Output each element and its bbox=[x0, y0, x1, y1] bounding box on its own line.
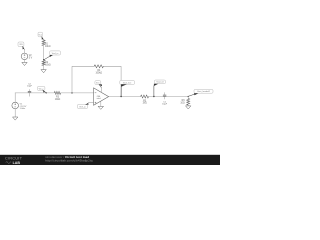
svg-text:10kΩ: 10kΩ bbox=[55, 99, 61, 101]
wire feedback right bbox=[103, 65, 121, 67]
svg-text:Vout_loaded2: Vout_loaded2 bbox=[197, 90, 211, 93]
svg-text:5 V: 5 V bbox=[29, 57, 33, 59]
wire bbox=[14, 93, 16, 102]
wire bbox=[24, 60, 26, 63]
wire feedback down bbox=[120, 66, 122, 96]
wire ground stub bbox=[100, 101, 102, 106]
svg-text:1 kHz: 1 kHz bbox=[20, 108, 26, 110]
svg-text:10µF: 10µF bbox=[27, 86, 33, 88]
wire power stub bbox=[100, 88, 102, 93]
junction bbox=[46, 92, 47, 93]
svg-text:10kΩ: 10kΩ bbox=[45, 65, 51, 67]
svg-text:Vout_ld: Vout_ld bbox=[156, 81, 164, 84]
capacitor C1 bbox=[164, 92, 166, 95]
resistor R2 bbox=[42, 60, 45, 65]
junction output bbox=[120, 96, 121, 97]
junction bbox=[188, 96, 189, 97]
ground op-amp bbox=[98, 106, 103, 109]
ground bbox=[13, 117, 18, 120]
svg-text:10µF: 10µF bbox=[162, 104, 168, 106]
node VOUT label bbox=[120, 80, 135, 84]
wire feedback top bbox=[72, 65, 94, 67]
wire feedback up bbox=[71, 66, 73, 93]
wire plus stub bbox=[89, 102, 94, 104]
node VLOAD label bbox=[194, 89, 213, 93]
svg-text:1kΩ: 1kΩ bbox=[143, 103, 147, 105]
node VIN label bbox=[37, 86, 45, 90]
footer bar bbox=[0, 155, 220, 165]
wire bbox=[149, 96, 189, 98]
svg-text:100kΩ: 100kΩ bbox=[95, 72, 102, 74]
junction feedback bbox=[71, 92, 72, 93]
svg-text:LAB: LAB bbox=[13, 161, 21, 165]
net flag VCC bbox=[38, 32, 43, 37]
wire left rail bbox=[15, 92, 54, 94]
junction bbox=[153, 96, 154, 97]
capacitor C2 bbox=[29, 89, 31, 91]
voltage source V1 bbox=[12, 102, 19, 109]
wire bbox=[187, 97, 189, 99]
wire output bbox=[109, 96, 141, 98]
node VREF label plus input bbox=[77, 104, 87, 108]
ground bbox=[41, 70, 46, 73]
svg-text:10Ω: 10Ω bbox=[180, 103, 185, 105]
wire bbox=[43, 39, 45, 41]
ground bbox=[22, 62, 27, 65]
net flag VIN bbox=[18, 42, 24, 47]
resistor R4 feedback bbox=[94, 65, 103, 68]
svg-text:Vout_live: Vout_live bbox=[123, 81, 132, 84]
resistor R3 bbox=[54, 91, 60, 94]
wire bbox=[43, 46, 45, 61]
svg-text:ideal: ideal bbox=[97, 98, 101, 100]
svg-text:http://circuitlab.com/c/b43kaf: http://circuitlab.com/c/b43kafjp2tq bbox=[45, 159, 93, 163]
junction bbox=[43, 59, 44, 60]
node VREF label bbox=[50, 51, 61, 55]
op-amp OA1 bbox=[94, 88, 109, 105]
wire bbox=[23, 49, 25, 53]
svg-text:Vref_in: Vref_in bbox=[79, 105, 86, 108]
resistor R1 bbox=[42, 40, 45, 46]
node VL label bbox=[154, 80, 165, 84]
wire bbox=[187, 104, 189, 107]
svg-text:10kΩ: 10kΩ bbox=[45, 46, 51, 48]
wire bbox=[43, 66, 45, 70]
wire bbox=[61, 92, 94, 94]
net flag VCC op-amp bbox=[95, 81, 101, 85]
resistor R6 bbox=[187, 99, 190, 106]
voltage source V2 bbox=[21, 53, 28, 60]
ground bbox=[186, 106, 191, 109]
svg-text:Vref_in: Vref_in bbox=[52, 52, 59, 55]
wire bbox=[14, 109, 16, 117]
resistor R5 bbox=[141, 95, 149, 98]
